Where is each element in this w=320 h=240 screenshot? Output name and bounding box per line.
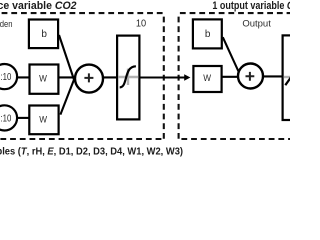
- svg-text::10: :10: [1, 113, 12, 124]
- wire: bias b1 diagonal to sum: [59, 35, 75, 82]
- input delay node 1 (1:10): [0, 64, 17, 89]
- wire: output W to output sum: [221, 76, 241, 78]
- wire: output b diagonal to output sum: [223, 37, 242, 78]
- svg-text:W: W: [39, 73, 48, 84]
- sum node output: [238, 64, 263, 89]
- svg-text:Output: Output: [242, 19, 271, 30]
- svg-text:b: b: [205, 29, 211, 40]
- wire: input 2 to W2 (row3 horizontal): [17, 117, 32, 119]
- hidden layer dashed box: top edge: [2, 12, 164, 14]
- sigmoid icon gray axes: [118, 76, 138, 78]
- purelin icon diagonal (cropped): [285, 76, 292, 85]
- svg-text:10: 10: [136, 18, 147, 29]
- output layer dashed box: bottom edge: [181, 138, 292, 140]
- svg-text:W: W: [203, 73, 212, 84]
- svg-text:W: W: [39, 114, 48, 125]
- plus sign (output sum): [246, 72, 255, 81]
- svg-text:1 output variable C: 1 output variable C: [212, 0, 290, 12]
- weight box W3 (output): [193, 66, 221, 92]
- hidden layer dashed box: right edge: [163, 17, 165, 139]
- weight box W2 (hidden row3): [29, 106, 58, 135]
- svg-text::10: :10: [1, 72, 12, 83]
- wire: arrow sigmoid to output W: [140, 76, 186, 78]
- svg-text:b: b: [41, 29, 47, 40]
- wire: W2 diagonal to sum: [60, 75, 76, 115]
- svg-text:bles (T, rH, E, D1, D2, D3, D4: bles (T, rH, E, D1, D2, D3, D4, W1, W2, …: [0, 147, 183, 158]
- bias box b2 (output): [193, 19, 222, 48]
- bias box b1 (hidden): [29, 20, 58, 49]
- sum node hidden: [75, 65, 103, 93]
- purelin icon gray axis (cropped): [284, 76, 291, 78]
- sigmoid icon curve: [120, 66, 136, 87]
- wire: input 1 to W1 (row2 horizontal): [17, 76, 81, 78]
- wire: output sum to linear block: [263, 75, 284, 77]
- arrowhead into output W: [184, 74, 190, 81]
- hidden layer dashed box: bottom edge: [0, 138, 163, 140]
- svg-text:ce variable CO2: ce variable CO2: [0, 0, 77, 12]
- weight box W1 (hidden row2): [30, 65, 59, 94]
- output layer dashed box: left edge: [178, 17, 180, 139]
- sigmoid activation block (tansig): [117, 36, 139, 120]
- input delay node 2 (1:10): [0, 105, 17, 130]
- wire: sum to sigmoid block: [99, 76, 118, 78]
- plus sign (hidden sum): [84, 73, 93, 82]
- output layer dashed box: top edge: [180, 12, 292, 14]
- svg-text:den: den: [0, 19, 13, 30]
- linear activation block (purelin, cropped): [283, 35, 313, 120]
